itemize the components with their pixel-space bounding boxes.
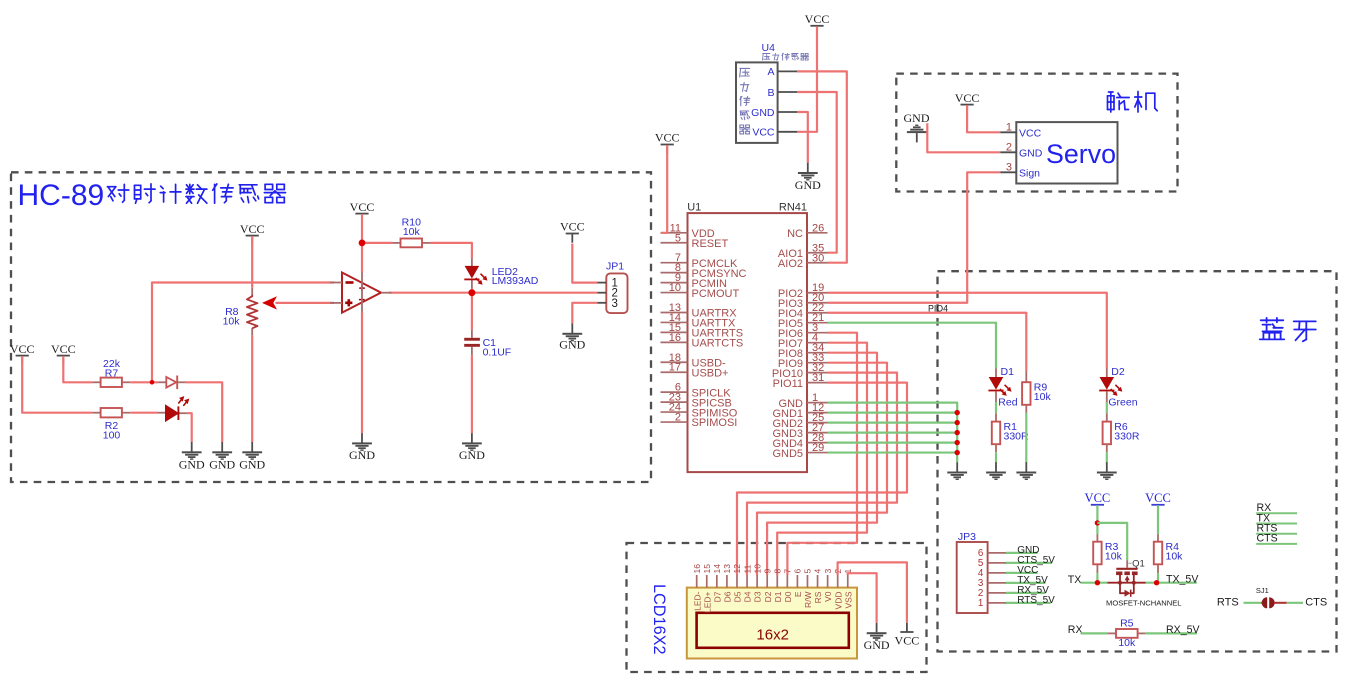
module LCD1 16x2 display: [687, 588, 857, 659]
svg-text:U4: U4: [762, 42, 776, 54]
wire net PIO3 to servo Sign: [828, 172, 1001, 302]
svg-text:5: 5: [675, 232, 681, 244]
transistor Q1 MOSFET-NCHANNEL: [1106, 559, 1182, 608]
svg-text:10: 10: [752, 564, 762, 574]
pin stub R5 left: [1108, 632, 1116, 634]
label U4 value 压力传感器: [763, 53, 809, 60]
connector JP3: [957, 531, 1007, 613]
wire net TX label stub: [1256, 523, 1297, 525]
diode D3 (receiver): [166, 376, 177, 390]
svg-text:VCC: VCC: [895, 633, 920, 647]
svg-text:15: 15: [702, 564, 712, 574]
svg-text:9: 9: [762, 569, 772, 574]
wire net PIO2 to LED D2: [828, 293, 1107, 369]
svg-text:UARTCTS: UARTCTS: [692, 338, 744, 350]
wire net D1 to R1: [995, 402, 997, 413]
svg-text:VCC: VCC: [51, 342, 76, 356]
svg-text:10k: 10k: [1166, 551, 1184, 563]
pin stub R7 left: [93, 381, 101, 383]
svg-text:11: 11: [742, 564, 752, 573]
svg-text:HC-89: HC-89: [18, 179, 105, 212]
power VCC (LCD): [895, 623, 920, 648]
wire net R4 to TX_5V line: [1157, 573, 1159, 583]
frame HC-89 sensor module box: [11, 172, 651, 482]
svg-text:A: A: [767, 66, 774, 78]
ground (diode D3): [209, 442, 235, 472]
wire net RTS label stub: [1256, 533, 1297, 535]
capacitor C1 0.1UF: [464, 337, 511, 358]
pin stub C1 bottom: [471, 347, 473, 355]
resistor R4 10k: [1154, 541, 1183, 564]
svg-text:VCC: VCC: [1145, 491, 1171, 505]
wire net JP3 TX_5V: [1006, 582, 1046, 584]
wire net U4.B to U1.AIO1: [797, 92, 837, 253]
ground (U1 GND bus): [947, 462, 967, 480]
svg-text:Servo: Servo: [1046, 139, 1116, 169]
svg-text:LED-: LED-: [692, 591, 702, 611]
svg-text:VSS: VSS: [843, 591, 853, 608]
pin stub D4 anode: [158, 412, 166, 414]
wire net VCC to JP1 pin1: [572, 244, 597, 283]
wire net PIO7 to LCD: [777, 343, 867, 575]
wire net op-amp bottom power to GND: [361, 313, 363, 434]
svg-text:TX_5V: TX_5V: [1166, 573, 1199, 585]
svg-text:26: 26: [812, 222, 824, 234]
wire net U1 GND5: [828, 451, 958, 453]
wire net R9 to ground: [1025, 413, 1027, 463]
wire net JP3 RTS_5V: [1006, 602, 1051, 604]
wire net JP1 pin3 to GND: [572, 303, 597, 324]
wire net TX_5V segment: [1146, 582, 1197, 584]
power VCC (U4 top): [805, 12, 830, 35]
pin stub R3 bottom: [1096, 564, 1098, 573]
svg-text:JP1: JP1: [606, 261, 624, 273]
connector JP1: [598, 261, 628, 314]
svg-text:USBD+: USBD+: [692, 367, 729, 379]
frame servo module box: [896, 74, 1177, 192]
pin stub D2 anode: [1106, 369, 1108, 378]
pin stub R9 bottom: [1025, 405, 1027, 413]
op-amp U2 comparator: [330, 273, 392, 313]
wire net R8 bottom to GND: [251, 336, 253, 442]
junction opamp VCC / R10 node: [359, 240, 366, 247]
svg-text:RX_5V: RX_5V: [1166, 624, 1200, 636]
wire net JP3 RX_5V: [1006, 592, 1046, 594]
svg-text:GND: GND: [209, 458, 235, 472]
svg-text:10: 10: [669, 282, 681, 294]
svg-text:Sign: Sign: [1019, 167, 1040, 179]
svg-text:10k: 10k: [223, 316, 241, 328]
svg-text:D1: D1: [773, 591, 783, 602]
wire net diode D3 cathode to GND: [185, 382, 222, 442]
svg-text:D6: D6: [723, 591, 733, 602]
pin stub Q1 gate: [1126, 561, 1128, 568]
wire net JP3 VCC: [1006, 572, 1038, 574]
power VCC (op-amp supply): [350, 200, 375, 223]
svg-text:GND: GND: [179, 458, 205, 472]
wire net VCC down to U4 VCC pin: [797, 26, 817, 132]
svg-text:1: 1: [978, 598, 983, 609]
title 蓝牙: [1260, 318, 1284, 340]
svg-text:V0: V0: [823, 591, 833, 602]
title hanzi 对射计数传感器: [107, 184, 128, 202]
wire net servo GND pin2: [927, 123, 1000, 152]
svg-text:SJ1: SJ1: [1256, 586, 1269, 595]
wiper arrow of R8: [262, 296, 277, 309]
svg-text:16x2: 16x2: [756, 627, 789, 644]
svg-text:GND: GND: [349, 448, 375, 462]
svg-text:0.1UF: 0.1UF: [483, 346, 512, 358]
ground (LCD VSS): [864, 623, 890, 652]
pin stub R5 right: [1138, 632, 1146, 634]
svg-text:Green: Green: [1108, 397, 1137, 409]
power VCC (R8 top): [240, 222, 265, 245]
pin stub D3 anode: [158, 381, 166, 383]
wire net R10 right to LED2: [431, 243, 472, 258]
pin stub R1 top: [995, 413, 997, 422]
op-amp pin stubs: [330, 282, 342, 284]
wire net LCD VDD to VCC: [838, 562, 907, 622]
svg-text:D7: D7: [712, 591, 722, 602]
junction junction R3/TX: [1095, 580, 1100, 585]
wire net CTS label stub: [1256, 543, 1297, 545]
svg-text:LCD16X2: LCD16X2: [650, 584, 668, 655]
svg-text:330R: 330R: [1114, 430, 1140, 442]
wire net VCC down to R8: [251, 236, 253, 288]
svg-text:VDD: VDD: [833, 592, 843, 610]
pin stub R4 top: [1157, 535, 1159, 543]
junction junction VCC/R3/gate: [1095, 520, 1100, 525]
svg-text:CTS: CTS: [1257, 533, 1278, 545]
svg-text:VCC: VCC: [655, 131, 680, 145]
ground (R6): [1097, 462, 1117, 480]
svg-text:GND: GND: [239, 458, 265, 472]
resistor R6 330R: [1103, 421, 1140, 444]
wire net op-amp out / R10 node: [362, 242, 393, 244]
svg-text:17: 17: [669, 362, 681, 374]
wire net C1 bottom to GND: [471, 355, 473, 433]
svg-text:3: 3: [823, 569, 833, 574]
wire net VCC to op-amp power: [361, 214, 363, 273]
wire net U1 GND1: [828, 412, 958, 414]
pin stub R3 top: [1096, 535, 1098, 543]
svg-text:VCC: VCC: [955, 91, 980, 105]
power VCC (servo): [955, 91, 980, 114]
LED D LED2 LM393AD: [464, 266, 487, 285]
wire net SJ1 to CTS: [1287, 602, 1303, 604]
wire net R1 to ground: [995, 452, 997, 462]
wire net VCC to R7: [63, 356, 92, 382]
svg-text:6: 6: [793, 569, 803, 574]
wire net output node down to C1: [471, 293, 473, 330]
pin stub D2 cathode: [1106, 391, 1108, 402]
svg-text:RTS: RTS: [1217, 597, 1239, 609]
wire net D2 to R6: [1106, 402, 1108, 413]
pin stub D4 cathode: [179, 412, 187, 414]
resistor R2 100: [101, 408, 122, 442]
svg-text:RESET: RESET: [692, 238, 729, 250]
junction junction GND5: [955, 450, 960, 455]
svg-text:14: 14: [712, 564, 722, 574]
power VCC (R3, blue): [1085, 491, 1111, 514]
wire net RTS to SJ1: [1244, 602, 1262, 604]
svg-text:PIO11: PIO11: [773, 378, 803, 390]
svg-text:RS: RS: [813, 591, 823, 603]
wire net LED D4 cathode to GND: [187, 413, 192, 442]
svg-text:AIO2: AIO2: [778, 258, 803, 270]
svg-text:RTS_5V: RTS_5V: [1017, 595, 1055, 606]
svg-text:LM393AD: LM393AD: [492, 275, 539, 287]
svg-text:D4: D4: [743, 591, 753, 602]
wire net PIO4 to R9: [828, 313, 1027, 371]
svg-text:R/W: R/W: [803, 592, 813, 609]
LCD pin stubs, numbers and names: [692, 564, 853, 613]
resistor R3 10k: [1093, 541, 1122, 564]
wire net PIO5 to LED D1: [828, 323, 997, 369]
svg-text:D1: D1: [1001, 366, 1015, 378]
pin stub R7 right: [122, 381, 130, 383]
svg-text:VCC: VCC: [752, 127, 775, 139]
svg-text:GND: GND: [751, 107, 775, 119]
wire net R3 to TX line: [1096, 573, 1098, 583]
resistor R9 10k: [1022, 382, 1051, 405]
svg-text:10k: 10k: [1118, 637, 1136, 649]
wire net R8 wiper to op-amp plus: [276, 302, 335, 304]
svg-text:3: 3: [612, 298, 618, 310]
IC U4 pressure sensor: [736, 42, 797, 143]
junction junction GND2: [955, 420, 960, 425]
pin stub R10 left: [393, 242, 401, 244]
wire net PIO6 to LCD: [787, 333, 857, 575]
svg-text:E: E: [793, 591, 803, 597]
svg-text:100: 100: [103, 430, 121, 442]
wire net LED2 cathode to output node: [471, 289, 473, 293]
wire net R2 to LED D4: [130, 412, 158, 414]
junction R7-diode-opamp node: [150, 380, 155, 385]
resistor R10 10k: [401, 217, 423, 248]
svg-text:GND5: GND5: [772, 448, 803, 460]
svg-text:D2: D2: [763, 591, 773, 602]
wire net PIO10 to LCD: [747, 373, 897, 575]
wire net LCD VSS to GND: [848, 573, 877, 623]
svg-text:PCMOUT: PCMOUT: [692, 288, 740, 300]
svg-text:8: 8: [772, 569, 782, 574]
svg-text:MOSFET-NCHANNEL: MOSFET-NCHANNEL: [1106, 599, 1182, 608]
svg-text:VCC: VCC: [1019, 127, 1042, 139]
svg-text:VCC: VCC: [560, 220, 585, 234]
svg-text:TX: TX: [1068, 574, 1082, 586]
wire net PIO8 to LCD: [767, 353, 877, 575]
junction LED2/output/C1 node: [468, 289, 475, 296]
pin stub R9 top: [1025, 371, 1027, 382]
power VCC (R4, blue): [1145, 491, 1171, 514]
svg-text:5: 5: [803, 569, 813, 574]
wire net VCC to R4: [1157, 505, 1159, 534]
ground (R9): [1016, 462, 1036, 480]
pin stub LED2 anode: [471, 258, 473, 266]
LED D1 Red: [988, 377, 1011, 396]
frame LCD module box: [627, 543, 927, 672]
pin stub R4 bottom: [1157, 564, 1159, 573]
svg-text:VCC: VCC: [240, 222, 265, 236]
svg-text:13: 13: [722, 564, 732, 574]
svg-text:R5: R5: [1120, 617, 1134, 629]
junction junction R4/TX_5V: [1154, 580, 1159, 585]
svg-text:30: 30: [812, 252, 824, 264]
wire net VCC to R2: [22, 356, 92, 413]
power VCC (U1 VDD pin 11): [655, 131, 680, 154]
junction junction GND3: [955, 430, 960, 435]
svg-text:Q1: Q1: [1132, 559, 1145, 570]
pin stub R6 bottom: [1106, 444, 1108, 452]
svg-text:D0: D0: [783, 591, 793, 602]
ground (C1): [459, 433, 485, 462]
wire net R7/diode node up to op-amp minus: [152, 283, 334, 383]
wire net servo VCC pin1: [967, 105, 1000, 132]
wire net R6 to ground: [1106, 452, 1108, 462]
svg-text:16: 16: [692, 564, 702, 574]
svg-text:GND: GND: [795, 178, 821, 192]
wire net U1 GND4: [828, 441, 958, 443]
svg-text:10k: 10k: [1034, 391, 1052, 403]
svg-text:U1: U1: [687, 202, 701, 214]
svg-text:12: 12: [732, 564, 742, 574]
IC U1 RN41 bluetooth module: [661, 202, 828, 473]
pin stub D1 cathode: [995, 391, 997, 402]
svg-text:330R: 330R: [1004, 430, 1030, 442]
wire net TX segment: [1081, 582, 1108, 584]
svg-text:10k: 10k: [403, 226, 421, 238]
svg-text:GND: GND: [1019, 147, 1043, 159]
pin stub R10 right: [422, 242, 431, 244]
module SERVO: [1000, 121, 1117, 183]
svg-text:VCC: VCC: [805, 12, 830, 26]
wire net PIO9 to LCD: [757, 363, 887, 575]
svg-text:PIO4: PIO4: [928, 303, 948, 313]
ground (JP1 pin3): [559, 324, 585, 352]
wire net JP3 CTS_5V: [1006, 562, 1052, 564]
svg-text:D3: D3: [753, 591, 763, 602]
resistor R1 330R: [992, 421, 1029, 444]
junction junction GND4: [955, 440, 960, 445]
svg-text:GND: GND: [559, 338, 585, 352]
wire net VCC to R3: [1096, 505, 1098, 534]
svg-text:SPIMOSI: SPIMOSI: [692, 417, 738, 429]
wire net U1 GND pins to ground: [828, 403, 958, 463]
wire net RX to R5: [1081, 632, 1109, 634]
junction junction GND1: [955, 410, 960, 415]
svg-text:CTS: CTS: [1305, 597, 1327, 609]
svg-text:29: 29: [812, 442, 824, 454]
svg-text:NC: NC: [787, 228, 803, 240]
wire net R5 to RX_5V: [1145, 632, 1197, 634]
svg-text:RN41: RN41: [779, 202, 807, 214]
ground (R8): [239, 442, 265, 472]
svg-text:10k: 10k: [1105, 551, 1123, 563]
wire net U1 GND3: [828, 432, 958, 434]
wire net U4.A to U1.AIO2: [797, 71, 847, 262]
pin stub R2 right: [122, 412, 130, 414]
power VCC (R2 feed): [10, 342, 35, 365]
svg-text:2: 2: [675, 412, 681, 424]
svg-text:JP3: JP3: [958, 531, 976, 543]
svg-text:GND: GND: [459, 448, 485, 462]
ground (LED D4): [179, 442, 205, 472]
frame bluetooth module box: [938, 271, 1337, 651]
svg-text:VCC: VCC: [1085, 491, 1111, 505]
power VCC (R7 feed): [51, 342, 76, 365]
wire net U1 GND2: [828, 422, 958, 424]
svg-text:B: B: [767, 87, 774, 99]
svg-text:1: 1: [1006, 121, 1012, 133]
ground (R1): [986, 462, 1006, 480]
pin stub R8 top: [251, 288, 253, 295]
svg-text:D2: D2: [1111, 366, 1125, 378]
svg-text:3: 3: [1006, 161, 1012, 173]
svg-text:2: 2: [1006, 141, 1012, 153]
pin stub C1 top: [471, 330, 473, 338]
svg-text:D5: D5: [733, 591, 743, 602]
wire net RX label stub: [1256, 512, 1297, 514]
svg-text:7: 7: [783, 569, 793, 574]
ground (U4): [795, 163, 821, 192]
pin stub R1 bottom: [995, 444, 997, 452]
LED D2 Green: [1099, 377, 1122, 396]
pin stub R6 top: [1106, 413, 1108, 422]
ground (op-amp): [349, 433, 375, 462]
svg-text:R7: R7: [105, 367, 119, 379]
wire net gate branch: [1097, 523, 1127, 561]
svg-text:LED+: LED+: [702, 591, 712, 613]
jumper SJ1: [1256, 586, 1287, 608]
wire net op-amp output to JP1 pin2: [389, 292, 598, 294]
svg-text:GND: GND: [904, 111, 930, 125]
resistor R7 22k: [101, 358, 122, 387]
svg-text:4: 4: [813, 569, 823, 574]
wire net VCC to U1 VDD: [661, 145, 667, 233]
trimmer R8 10k: [223, 295, 258, 329]
LED D4 (emitter): [166, 396, 189, 420]
power VCC (JP1 pin1): [560, 220, 585, 243]
pin stub LED2 cathode: [471, 280, 473, 289]
svg-text:VCC: VCC: [350, 200, 375, 214]
pin stub R8 bottom: [251, 328, 253, 336]
wire net R7 to diode D3 and GND: [130, 381, 158, 383]
svg-text:31: 31: [812, 372, 824, 384]
resistor R5 10k: [1116, 617, 1138, 649]
title 舵机: [1108, 92, 1130, 112]
svg-text:GND: GND: [864, 638, 890, 652]
svg-text:RX: RX: [1068, 624, 1083, 636]
ground (servo, flipped): [904, 111, 930, 142]
wire net JP3 GND: [1006, 552, 1038, 554]
wire net PIO11 to LCD: [737, 383, 907, 575]
pin stub R2 left: [93, 412, 101, 414]
svg-text:16: 16: [669, 332, 681, 344]
pin stub D1 anode: [995, 369, 997, 378]
svg-text:Red: Red: [998, 397, 1017, 409]
svg-text:VCC: VCC: [10, 342, 35, 356]
pin stub D3 cathode: [178, 381, 186, 383]
wire net U4.GND to ground: [797, 112, 808, 163]
